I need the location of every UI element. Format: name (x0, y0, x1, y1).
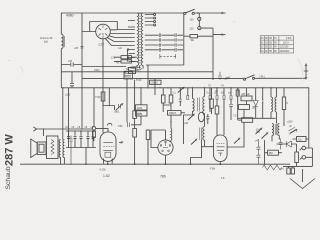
tube V1 electrodes (99, 25, 108, 38)
capacitor C0 (74, 46, 84, 50)
phone jack 2 (300, 156, 313, 160)
tube V1 envelope (96, 24, 111, 39)
trimmer arrow mid (178, 87, 185, 93)
wire IF connections (171, 88, 205, 146)
wire R3b (147, 130, 149, 165)
mains arrow 2 (222, 33, 226, 35)
junction dot a (109, 105, 111, 107)
tap connector bars 2 (175, 33, 176, 51)
box label C5610 (150, 80, 162, 84)
tube V2 base pin (104, 159, 113, 165)
resistor grid V2 (93, 131, 96, 137)
wire V4 left (191, 140, 221, 164)
capacitor C2 stub (71, 72, 73, 88)
junction dots speaker bus (43, 87, 64, 130)
IF transformer 2 left winding (171, 129, 172, 141)
svg-text:Antenne 50: Antenne 50 (40, 37, 53, 40)
junction dots chassis (85, 163, 221, 165)
output transformer box (47, 136, 59, 159)
junction dot mains (197, 12, 199, 14)
svg-text:74: 74 (221, 85, 224, 88)
wire bus y66 (82, 66, 126, 68)
svg-text:81: 81 (261, 42, 264, 44)
transformer T1 bottom stubs (137, 66, 143, 69)
resistor R6 (241, 93, 252, 101)
speaker connector (33, 127, 36, 131)
svg-text:u5: u5 (78, 126, 81, 129)
wire mid links (148, 65, 188, 106)
svg-text:4,8: 4,8 (221, 177, 225, 180)
detector diode D1 (253, 88, 258, 119)
svg-text:65: 65 (269, 42, 272, 44)
wire grid cap (94, 79, 141, 127)
oscillator coil horizontal (127, 67, 142, 71)
svg-text:5x0: 5x0 (44, 41, 49, 44)
svg-text:125/150: 125/150 (280, 47, 289, 49)
svg-text:Dr60: Dr60 (137, 113, 143, 116)
wire V1 anode taps (106, 30, 135, 46)
ground chassis symbol (290, 169, 315, 189)
component row right of IF (210, 88, 238, 96)
svg-text:95: 95 (274, 42, 277, 44)
speaker cone (31, 139, 37, 158)
grid cap circle V2 (92, 127, 95, 130)
arrow anode V2 (119, 141, 124, 143)
switch S2 (244, 75, 255, 80)
coil L3 (275, 97, 277, 112)
svg-text:1-52: 1-52 (103, 174, 110, 178)
capacitor C2 (70, 84, 74, 86)
svg-text:C50: C50 (118, 125, 123, 128)
svg-text:220/240V: 220/240V (280, 51, 290, 53)
svg-text:F1W: F1W (210, 167, 216, 170)
chassis bus bottom (20, 163, 290, 165)
svg-text:220: 220 (190, 28, 195, 31)
wire R10 (296, 163, 298, 167)
svg-text:u78: u78 (68, 60, 73, 63)
wire mains 2 (184, 13, 226, 65)
wire bus y72 (61, 71, 213, 73)
tube V2 electrodes (103, 142, 114, 157)
junction dots IF (140, 87, 205, 89)
svg-text:1600: 1600 (94, 69, 100, 72)
svg-text:u49: u49 (226, 77, 231, 80)
switch S1 (184, 9, 195, 14)
IF transformer 1 left winding (193, 99, 195, 112)
bypass capacitor Ce (92, 131, 95, 148)
capacitor C9 (279, 139, 283, 150)
svg-text:125: 125 (190, 18, 195, 21)
junction dot b (170, 121, 172, 123)
output transformer winding 2 (63, 140, 65, 158)
svg-text:u4: u4 (255, 140, 258, 143)
svg-text:5740: 5740 (136, 79, 142, 82)
trimmer C8 (255, 132, 269, 143)
speaker magnet (37, 142, 46, 155)
IF tuning slug oval (198, 112, 204, 122)
voltage selector plug B (190, 27, 201, 31)
svg-text:03: 03 (265, 42, 268, 44)
choke box Dr1 (136, 105, 148, 110)
trimmer C3 (114, 103, 124, 114)
wire V2 connections (37, 129, 109, 132)
zigzag resistor R12 (263, 165, 285, 170)
svg-text:94: 94 (274, 47, 277, 49)
svg-text:90: 90 (265, 38, 268, 40)
wire antenna to top bus (60, 13, 62, 34)
bypass cap bank bus bottom (66, 147, 96, 149)
svg-text:287 W: 287 W (4, 134, 16, 166)
wire R5 (206, 114, 217, 136)
IF transformer 1 right winding (203, 97, 205, 114)
band switch box (124, 71, 133, 79)
wire R6 R7 (246, 88, 248, 105)
resistor R10 (295, 152, 299, 163)
wire bus y78 right (255, 77, 307, 79)
svg-text:D5407: D5407 (169, 112, 177, 115)
svg-text:55: 55 (269, 51, 272, 53)
svg-text:u100: u100 (287, 121, 293, 124)
svg-text:03: 03 (261, 51, 264, 53)
wire ground bus right (283, 165, 312, 167)
svg-text:u5: u5 (72, 126, 75, 129)
trimmer C12 (191, 139, 198, 145)
tube V4 electrodes (217, 144, 225, 157)
svg-text:12u: 12u (298, 139, 303, 142)
wire R1 (103, 88, 115, 106)
capacitor C13 (257, 139, 261, 164)
junction dots cap bank (68, 130, 94, 131)
wire V1 grid loop (82, 22, 117, 32)
output transformer winding 1 (59, 140, 60, 158)
svg-text:00: 00 (265, 47, 268, 49)
wire bus y87 (61, 87, 308, 89)
label antenna text (40, 37, 53, 44)
voltage selector plug A (190, 17, 201, 21)
wire V1 bottom drop (102, 39, 104, 133)
wire V1 left drop (81, 13, 83, 129)
labels row 2 (206, 92, 231, 95)
resistor R8 (233, 115, 253, 123)
svg-text:0,3W: 0,3W (286, 38, 292, 40)
diode D2 (286, 141, 291, 147)
potentiometer hatch (289, 125, 298, 134)
svg-text:250: 250 (269, 152, 274, 155)
wire heater taps (145, 35, 183, 50)
svg-text:7,5: 7,5 (233, 115, 237, 118)
wire cap bank to ground (85, 148, 87, 165)
transformer T1 secondary winding (141, 13, 143, 66)
phone jack 1 (300, 146, 313, 150)
svg-text:SE: SE (191, 39, 195, 42)
IF transformer 2 core (200, 128, 202, 141)
transformer T1 right taps (145, 14, 156, 27)
svg-text:u78: u78 (74, 47, 79, 50)
tap connector bars 1 (159, 33, 160, 51)
svg-text:92: 92 (261, 47, 264, 49)
wire R11 (265, 140, 282, 164)
svg-text:C5610: C5610 (151, 82, 159, 85)
svg-text:30: 30 (261, 38, 264, 40)
junction right (262, 118, 264, 120)
svg-text:Schaub: Schaub (5, 166, 12, 189)
arrester symbol (304, 63, 308, 80)
wire diode D2 (277, 144, 297, 152)
trimmer C11 (234, 138, 241, 144)
svg-text:u112: u112 (65, 94, 71, 97)
svg-text:Dr60: Dr60 (137, 107, 143, 110)
wire R2 (134, 80, 136, 129)
resistor R5 (215, 106, 219, 114)
transformer T1 primary winding (137, 13, 139, 66)
svg-text:u5: u5 (65, 126, 68, 129)
wire transformer bottom to right (146, 64, 184, 66)
coil L2 (271, 97, 273, 112)
fuse Si (190, 35, 198, 43)
svg-text:u301: u301 (114, 111, 120, 114)
svg-text:25: 25 (269, 47, 272, 49)
svg-text:0,1: 0,1 (173, 92, 177, 95)
wire box 12u (293, 138, 309, 140)
resistor R6a (236, 90, 239, 96)
mains arrow 1 (222, 12, 226, 14)
svg-text:7u: 7u (206, 92, 209, 95)
wire mains vertical (212, 28, 214, 80)
svg-text:98: 98 (274, 51, 277, 53)
svg-text:uF: uF (289, 125, 292, 128)
svg-text:u5: u5 (85, 126, 88, 129)
component row small caps (179, 96, 189, 102)
capacitor C6 (229, 105, 233, 121)
bypass capacitor Cd (87, 131, 90, 148)
bypass capacitor Cc (80, 131, 83, 148)
wire electrolytic (289, 166, 293, 168)
coil core L4 L5 (275, 124, 277, 135)
gang link end bars (160, 54, 176, 59)
wire L4 L5 down (272, 136, 279, 142)
gang link dashed (160, 55, 176, 57)
svg-text:110 V: 110 V (283, 42, 289, 44)
svg-text:A 202: A 202 (100, 168, 107, 171)
resistor box R11 (268, 150, 279, 155)
wire R8 (238, 119, 242, 121)
wire top bus (61, 12, 226, 14)
wire R4 (170, 88, 172, 129)
svg-text:A9: A9 (116, 62, 120, 65)
IF transformer 2 right winding (203, 127, 205, 141)
svg-text:95: 95 (269, 38, 272, 40)
choke box Dr2 (136, 111, 148, 116)
box below transformer (129, 68, 136, 74)
resistor R2 (133, 111, 141, 119)
field coil zigzag (51, 140, 54, 155)
labels row u9 (173, 85, 225, 95)
wire R3 (163, 88, 171, 112)
resistor R1 (95, 92, 105, 101)
wire jacks (309, 146, 313, 166)
box D540 (168, 111, 182, 116)
tube V3 envelope (158, 140, 173, 155)
junction dots bus D (147, 78, 272, 89)
capacitor block upper (114, 56, 137, 63)
wire right edge drop (308, 88, 310, 147)
svg-text:04: 04 (274, 38, 277, 40)
wire row 2 drops (210, 100, 231, 136)
IF transformer 1 core (198, 98, 200, 112)
transformer T1 left taps (127, 21, 135, 62)
bypass cap bank bus top (66, 130, 96, 132)
wire cap y64 (61, 64, 82, 66)
labels mid wires (111, 47, 231, 82)
svg-text:u40: u40 (184, 122, 189, 125)
wire R6a (237, 88, 239, 120)
small caps row 2 (209, 96, 232, 100)
tube V3 electrodes (160, 141, 171, 151)
wire bus y79 (82, 78, 244, 80)
trimmer C7 (256, 128, 263, 135)
capacitor C14 (218, 72, 228, 81)
svg-text:D0: D0 (252, 107, 256, 110)
labels cap bank (65, 126, 94, 129)
wire selector (199, 13, 213, 28)
wire R2b (134, 137, 136, 164)
tube V4 envelope (214, 135, 228, 162)
capacitor C1 (71, 63, 73, 67)
resistor R3 (161, 95, 165, 103)
capacitor C50 (118, 123, 130, 129)
trimmer C4 (184, 114, 195, 126)
wire antenna drop (60, 49, 62, 88)
resistor R5b (210, 88, 214, 114)
svg-text:+0: +0 (281, 168, 284, 171)
coil L5 (278, 124, 280, 136)
coil L4 (272, 124, 274, 136)
svg-text:90: 90 (265, 51, 268, 53)
resistor R3b (146, 130, 150, 140)
svg-text:786: 786 (160, 174, 166, 178)
svg-text:4080: 4080 (66, 13, 74, 17)
electrolytic C10 (287, 168, 295, 174)
wire OT (44, 88, 69, 164)
box 12u (297, 137, 307, 142)
coil loop grid lead (108, 123, 112, 125)
resistor R2b (133, 129, 137, 138)
wire V3 (151, 130, 166, 164)
wire V4 right (227, 109, 244, 147)
bypass capacitor Cb (74, 131, 77, 148)
faint scan artifacts (8, 21, 303, 82)
svg-text:u45 7uF: u45 7uF (241, 93, 250, 96)
tube V2 envelope (100, 132, 116, 161)
svg-text:1uF: 1uF (118, 47, 123, 50)
wire right middle (238, 110, 284, 127)
svg-text:70: 70 (208, 85, 211, 88)
wire resistor grid V2 (93, 130, 95, 141)
resistor R7 (239, 105, 256, 110)
wire right verticals (262, 88, 284, 119)
voltage table (260, 36, 293, 53)
svg-text:7732: 7732 (95, 96, 101, 99)
wire chokes (140, 88, 142, 125)
resistor R9 (282, 97, 285, 110)
transformer T1 core (139, 14, 141, 66)
resistor R4 (169, 95, 173, 103)
capacitor Cf (69, 136, 72, 166)
bypass capacitor Ca (67, 131, 70, 148)
wire box D540 (181, 112, 185, 114)
antenna coil L1 (61, 34, 64, 48)
svg-text:0: 0 (287, 102, 289, 105)
